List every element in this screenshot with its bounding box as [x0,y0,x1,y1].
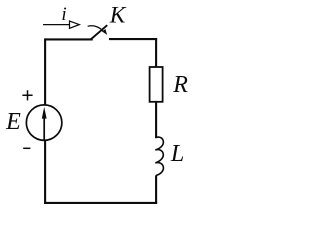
svg-text:K: K [109,2,127,28]
switch K blade (open) [91,25,108,39]
svg-text:E: E [5,109,21,135]
wire: right vertical, middle segment (resistor to inductor) [155,102,157,139]
wire: left vertical, lower segment [44,140,46,204]
source E circle [26,105,62,141]
svg-text:R: R [172,72,188,98]
plus sign (source positive terminal) [22,90,32,100]
current direction arrow [43,21,79,28]
wire: right vertical, upper segment (to resistor) [155,38,157,67]
minus sign (source negative terminal) [23,147,30,149]
resistor R [150,67,163,102]
inductor L (three humps) [155,137,163,175]
wire: left vertical, upper segment [44,38,46,105]
wire: top horizontal, left segment (to switch left contact) [45,38,93,40]
wire: bottom horizontal segment [44,202,157,204]
wire: right vertical, lower segment (inductor to bottom) [155,175,157,204]
source E internal EMF arrow [42,107,47,140]
wire: top horizontal, right segment (from switch right contact) [109,38,157,40]
svg-text:i: i [61,4,66,25]
svg-text:L: L [170,141,184,167]
switch K closing-motion arrow [88,26,108,35]
